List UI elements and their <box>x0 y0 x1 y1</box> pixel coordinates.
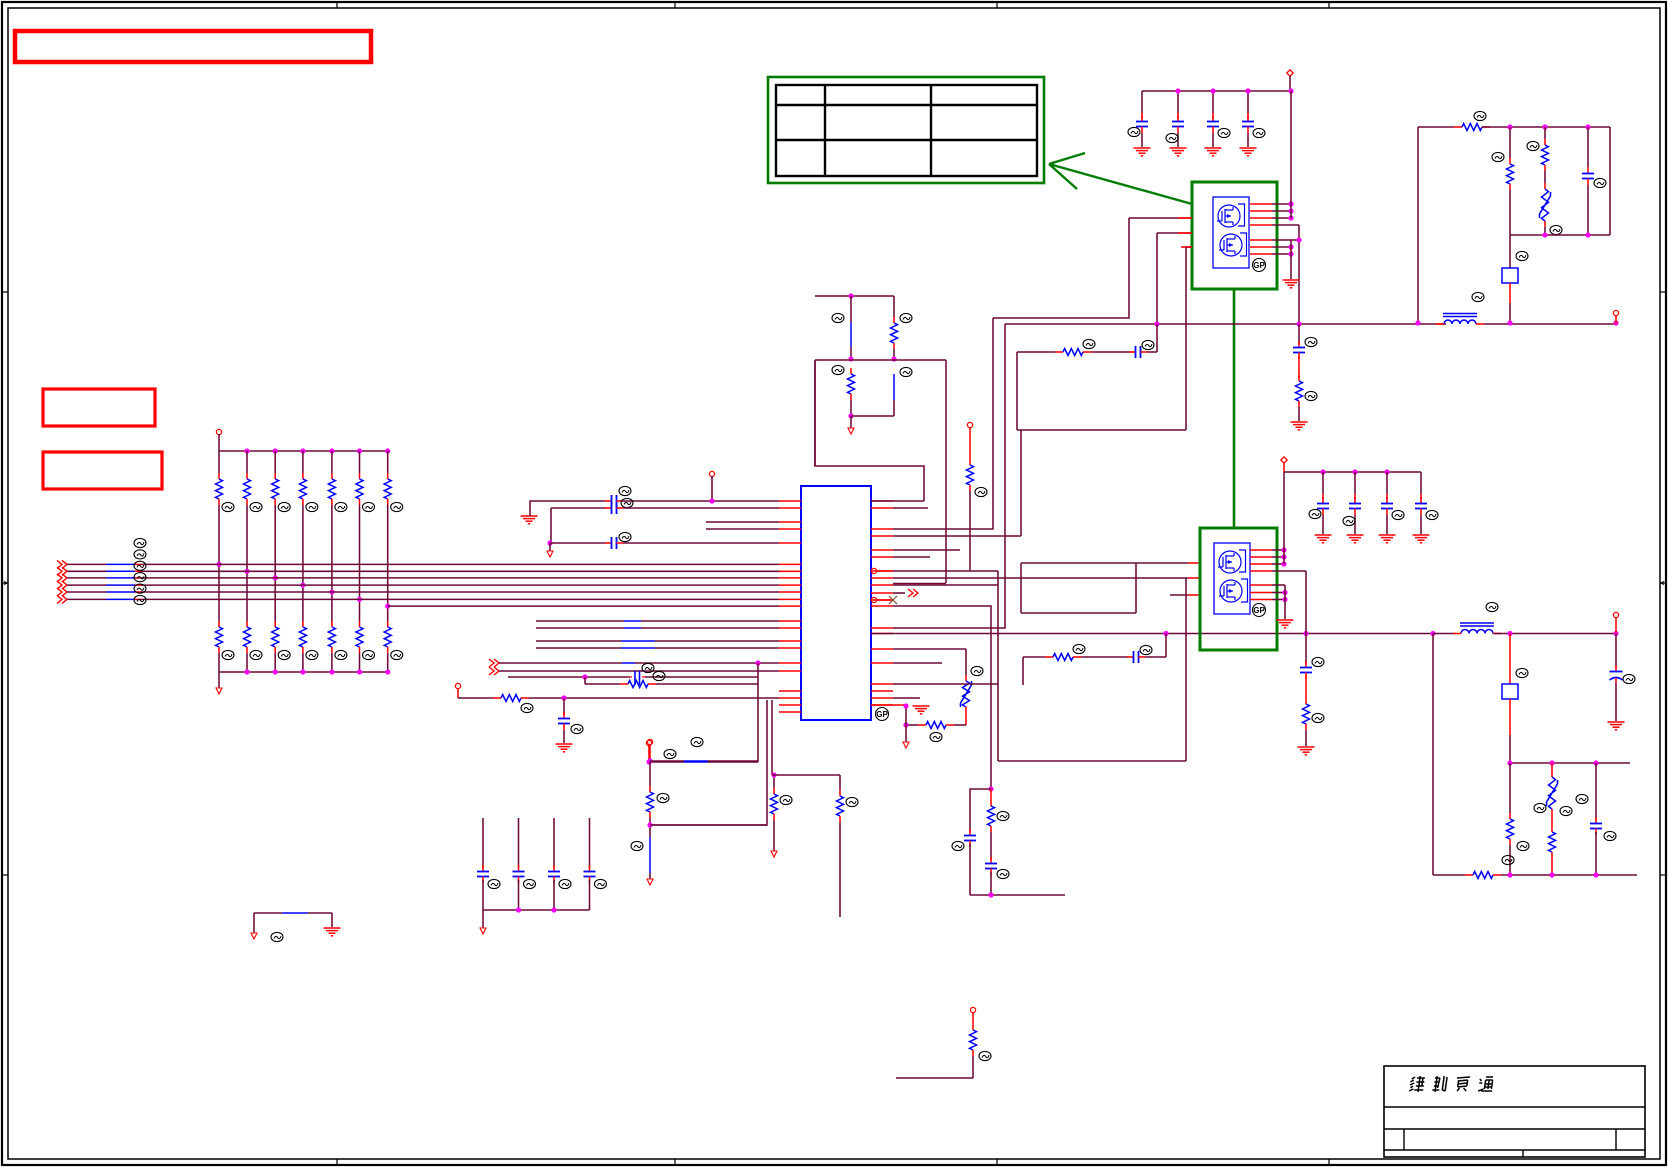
dual mosfet U3 internals <box>1213 197 1249 268</box>
pullup resistor R_a3 <box>272 451 291 578</box>
junction bus2 <box>1507 631 1618 636</box>
U4 lower pin y585 <box>1250 584 1285 586</box>
U3 right pin y218 <box>1250 215 1294 220</box>
wire bus segment B <box>1484 323 1616 325</box>
U3 right pin y211 <box>1250 208 1294 213</box>
U4 right pin y599.5 <box>1250 597 1288 602</box>
wire lr bottom <box>1433 855 1637 878</box>
pullup resistor R_a5 <box>328 451 347 592</box>
pullup resistor R_a1 <box>216 451 235 564</box>
wire x772 down <box>771 700 773 775</box>
green frame around table <box>768 77 1044 183</box>
bus line 2 <box>57 567 779 575</box>
stub rows <box>706 522 779 529</box>
table 3x3 <box>776 85 1037 176</box>
capacitor C_lr <box>1590 763 1616 875</box>
bottom cap bus <box>483 907 590 912</box>
bus line 7 <box>388 605 779 607</box>
wire y529 to top <box>893 318 993 529</box>
wire cap2 to U1 <box>623 507 779 509</box>
resistor R_tr2 <box>1492 127 1514 235</box>
capacitor C_bank_top_4 <box>1240 91 1266 156</box>
x1021 seg a <box>1020 430 1022 536</box>
capacitor C_bank2_4 <box>1413 472 1439 543</box>
res chain x650 lower <box>631 761 669 885</box>
wire bus segment A <box>1005 323 1446 325</box>
U4 label GP <box>1253 604 1266 617</box>
green arrow from U3 to table <box>1049 153 1192 204</box>
bus junctions <box>1163 631 1435 636</box>
stub y557 <box>893 556 930 558</box>
wire cap bus top <box>1142 90 1291 92</box>
stub y663r <box>893 662 942 664</box>
x906 chain <box>871 703 930 748</box>
wire top right vertical drop <box>1609 127 1611 235</box>
wire top net horizontal2 <box>1482 126 1610 128</box>
pullup resistor R_a2 <box>244 451 263 571</box>
U3 gate2 red lead <box>1178 232 1192 234</box>
U3 label GP <box>1253 259 1266 272</box>
wire U3 gate1 <box>1129 217 1192 219</box>
mosfet pair module U4 green box <box>1200 528 1277 650</box>
label R_tr1 <box>1474 111 1486 120</box>
res sub <box>988 789 1010 860</box>
capacitor C_dec1 <box>605 486 631 507</box>
divider top bus <box>815 293 894 298</box>
array bottom bus <box>219 671 388 673</box>
wire sub left <box>970 789 991 832</box>
wire y430 <box>1017 429 1186 431</box>
U3 source pin y225 <box>1250 224 1299 226</box>
array top junctions <box>244 448 390 453</box>
junction col3 <box>273 575 278 580</box>
pulldown resistor R_b2 <box>244 571 263 672</box>
wire gnd to cap1 <box>530 501 605 516</box>
wire y613 <box>1021 612 1136 614</box>
company name glyphs <box>1409 1076 1493 1092</box>
junction cap bus U4 <box>1320 469 1389 474</box>
svg-text:GP: GP <box>1253 606 1265 615</box>
capacitor C_bot_4 <box>584 818 607 910</box>
capacitor C_tr <box>1582 127 1606 235</box>
inductor L2 <box>1453 602 1501 633</box>
rc snubber 1 <box>1017 339 1157 381</box>
line y628 <box>536 627 779 629</box>
wire y536 link <box>893 535 1021 537</box>
pin R chain x970 <box>967 422 988 571</box>
cap pol to gnd <box>1608 634 1636 730</box>
capacitor C_bot_1 <box>477 818 500 910</box>
capacitor C_dec2 <box>605 498 633 514</box>
wire x1136 <box>1135 563 1137 613</box>
U1 left pin stubs <box>779 501 801 712</box>
line y621 <box>536 620 779 622</box>
U3 lower pin y240 <box>1250 237 1302 242</box>
wire bus y633 to L2 <box>1433 633 1455 635</box>
vertical x758 <box>757 663 759 762</box>
res x774 <box>771 788 793 857</box>
svg-text:GP: GP <box>1253 261 1265 270</box>
wire y585 <box>893 584 998 586</box>
U4 left pin y578 lead <box>1188 577 1200 579</box>
ground under U3 rail <box>1283 280 1300 288</box>
junction col4 <box>300 583 305 588</box>
wire x767 down <box>650 700 767 825</box>
junction col2 <box>244 569 249 574</box>
wire cap bus U4 <box>1284 471 1421 473</box>
junction t1 <box>1507 124 1590 129</box>
U3 right pin y247 <box>1250 244 1294 249</box>
chevron y593 <box>893 589 918 597</box>
current sense CL1 <box>1502 235 1528 323</box>
wire loop right <box>1185 578 1187 761</box>
varistor chain x966 <box>893 649 983 725</box>
ground cap1 <box>521 516 538 524</box>
wire y583 to U1 <box>893 583 946 585</box>
U3 right pin y204 <box>1250 201 1294 206</box>
pin P2 <box>1281 457 1287 472</box>
varistor chain lr <box>1534 763 1588 875</box>
divider left branch <box>832 296 855 434</box>
wire lr top <box>1510 762 1630 764</box>
res to x906 <box>903 722 966 742</box>
pin y571 + run <box>871 568 998 573</box>
U1 label GP <box>876 708 889 721</box>
title block <box>1384 1066 1645 1157</box>
wire y606 down <box>893 606 991 789</box>
divider right branch <box>891 296 913 416</box>
wire left rail to bus <box>1417 127 1419 323</box>
cap to gnd x564 <box>556 698 584 752</box>
array gnd arrow <box>216 672 222 694</box>
arrow gnd row3 <box>547 543 553 557</box>
wire tr bottom <box>1510 234 1610 236</box>
junction x774 <box>771 772 776 777</box>
stub y698r <box>893 697 920 699</box>
stub y550 <box>893 549 960 551</box>
wire main bus y633 <box>871 633 1433 635</box>
cap sub2 <box>985 857 1009 895</box>
capacitor C_bank_top_2 <box>1166 91 1187 156</box>
wire pin row2 <box>551 507 605 509</box>
wire x946 down <box>945 360 947 583</box>
wire y501 right <box>871 500 924 502</box>
wire x998 down <box>997 571 999 761</box>
wire U3 gate3 <box>1186 246 1192 248</box>
pulldown resistor R_b5 <box>328 592 347 672</box>
pulldown resistor R_b7 <box>384 606 403 672</box>
res x840 <box>837 775 859 917</box>
wire U3 gate2 <box>1157 232 1192 234</box>
capacitor C_bot_2 <box>513 818 536 910</box>
U4 right pin y592.5 <box>1250 590 1288 595</box>
green link U3 to U4 <box>1233 289 1236 528</box>
ground under U4 rail <box>1277 620 1294 628</box>
line y677 with cap <box>508 663 758 685</box>
wire loop y684 <box>893 683 998 685</box>
rc snubber2 right up <box>1165 634 1167 658</box>
capacitor C_bank2_3 <box>1379 472 1405 543</box>
wire x924 up <box>815 360 924 501</box>
wire gate1 run down <box>993 218 1129 318</box>
capacitor C_dec3 <box>605 532 631 549</box>
inductor L1 <box>1436 292 1484 324</box>
red note box left 2 <box>43 452 162 489</box>
pulldown resistor R_b4 <box>299 585 318 672</box>
wire gate2 run down <box>1156 233 1158 324</box>
nc pin y600 <box>871 596 897 604</box>
wire gate3 run down <box>1185 247 1187 430</box>
rc snubber1 left down <box>1016 381 1018 430</box>
wire top net horizontal <box>1418 126 1454 128</box>
junction bus <box>1154 320 1618 326</box>
pin P_vout_bot <box>1613 612 1618 633</box>
controller IC U1 <box>801 486 871 720</box>
stub y508 right <box>893 507 928 509</box>
array top bus <box>219 450 388 452</box>
bus line 5 <box>57 588 779 596</box>
junction t2 <box>1542 232 1590 237</box>
cap sub1 <box>952 829 976 895</box>
wire x815 down <box>814 360 816 466</box>
wire bus2 right <box>1494 633 1616 635</box>
rail right of U3 lower <box>1290 240 1292 279</box>
junction col7 <box>385 604 390 609</box>
capacitor C_bot_3 <box>548 818 571 910</box>
wire row3 <box>550 542 605 544</box>
pin P_pullup <box>216 429 221 451</box>
pin line y762 <box>646 740 758 764</box>
rail right of U4 upper <box>1283 472 1285 564</box>
resistor R_tr1 <box>1454 124 1490 131</box>
red note box left 1 <box>43 389 155 426</box>
wire y775 <box>772 774 840 776</box>
rc snubber1 right up <box>1156 324 1158 352</box>
wire y628 up bus <box>893 324 1005 628</box>
power pin P1 <box>1287 70 1293 91</box>
pin chain bottom <box>896 1007 991 1078</box>
junction col5 <box>329 589 334 594</box>
U3 gate1 red lead <box>1178 217 1192 219</box>
line y663 <box>489 659 779 667</box>
line y698 <box>455 683 779 712</box>
capacitor C_bank_top_3 <box>1205 91 1231 156</box>
U4 right pin y557 <box>1250 554 1287 559</box>
line y648 <box>536 647 779 649</box>
rail right of U3 upper <box>1290 91 1292 218</box>
pullup resistor R_a7 <box>384 451 403 606</box>
svg-text:GP: GP <box>876 710 888 719</box>
bus line 6 <box>57 595 779 603</box>
divider bottom tie <box>851 415 894 417</box>
junction x991 <box>988 786 993 791</box>
x1021 seg b + y563 to U4 <box>1021 563 1200 613</box>
capacitor C_bank_top_1 <box>1128 91 1151 156</box>
capacitor C_bank2_1 <box>1309 472 1332 543</box>
U3 gate3 red lead <box>1181 246 1192 248</box>
wire cap3 to U1 <box>623 542 779 544</box>
bus line 3 <box>57 574 779 582</box>
junction col1 <box>216 562 221 567</box>
resistor R_tr3 + varistor <box>1527 127 1562 235</box>
line y684 with res <box>585 671 758 687</box>
pullup resistor R_a4 <box>299 451 318 585</box>
wire phase U4 down <box>1305 571 1307 634</box>
junctions top cap bus <box>1175 88 1293 93</box>
wire row2 down <box>550 508 552 543</box>
rail right of U4 lower <box>1284 585 1286 619</box>
wire phase U3 down <box>1298 225 1300 324</box>
cap res gnd chain x1306 <box>1298 634 1325 755</box>
pin P_vout_top <box>1613 310 1618 324</box>
junction row3 <box>547 540 552 545</box>
U1 right pin stubs <box>871 501 893 705</box>
pin P_dec <box>709 471 714 503</box>
wire sub bottom <box>970 892 1065 897</box>
wire cap1 to U1 <box>623 500 779 502</box>
net stub bottom left <box>251 913 341 942</box>
capacitor C_bank2_2 <box>1343 472 1364 543</box>
U4 right pin y564 <box>1250 561 1287 566</box>
wire y578 to U4 <box>893 577 1188 579</box>
bottom bus gnd arrow <box>480 910 486 934</box>
resistor R_lr1 <box>1507 763 1530 875</box>
line y641 <box>536 640 779 642</box>
wire x774 down <box>773 775 775 788</box>
bundle labels <box>134 538 146 604</box>
pulldown resistor R_b1 <box>216 564 235 672</box>
current sense CL2 <box>1502 634 1528 764</box>
bus line 4 <box>57 581 779 589</box>
wire x1433 down <box>1432 634 1434 876</box>
line y671 <box>489 667 779 675</box>
junction col6 <box>357 597 362 602</box>
array bottom junctions <box>244 669 390 674</box>
junction lr <box>1507 760 1598 765</box>
mosfet pair module U3 green box <box>1192 182 1277 289</box>
pin chain x650 <box>647 737 758 763</box>
U4 right pin y550 <box>1250 547 1287 552</box>
pulldown resistor R_b6 <box>356 599 375 672</box>
wire y825 <box>650 824 767 826</box>
red note box top-left <box>15 31 371 62</box>
pulldown resistor R_b3 <box>272 578 291 672</box>
pullup resistor R_a6 <box>356 451 375 599</box>
bus line 1 <box>57 560 779 568</box>
divider mid rail <box>815 359 946 361</box>
U3 right pin y254 <box>1250 251 1294 256</box>
rc snubber 2 <box>1023 644 1166 685</box>
U4 left pin y595 <box>1170 594 1200 596</box>
dual mosfet U4 internals <box>1214 543 1250 614</box>
cap+res to gnd x1299 <box>1291 324 1318 430</box>
wire loop bottom <box>998 760 1186 762</box>
U4 phase pin y571 <box>1250 570 1306 572</box>
